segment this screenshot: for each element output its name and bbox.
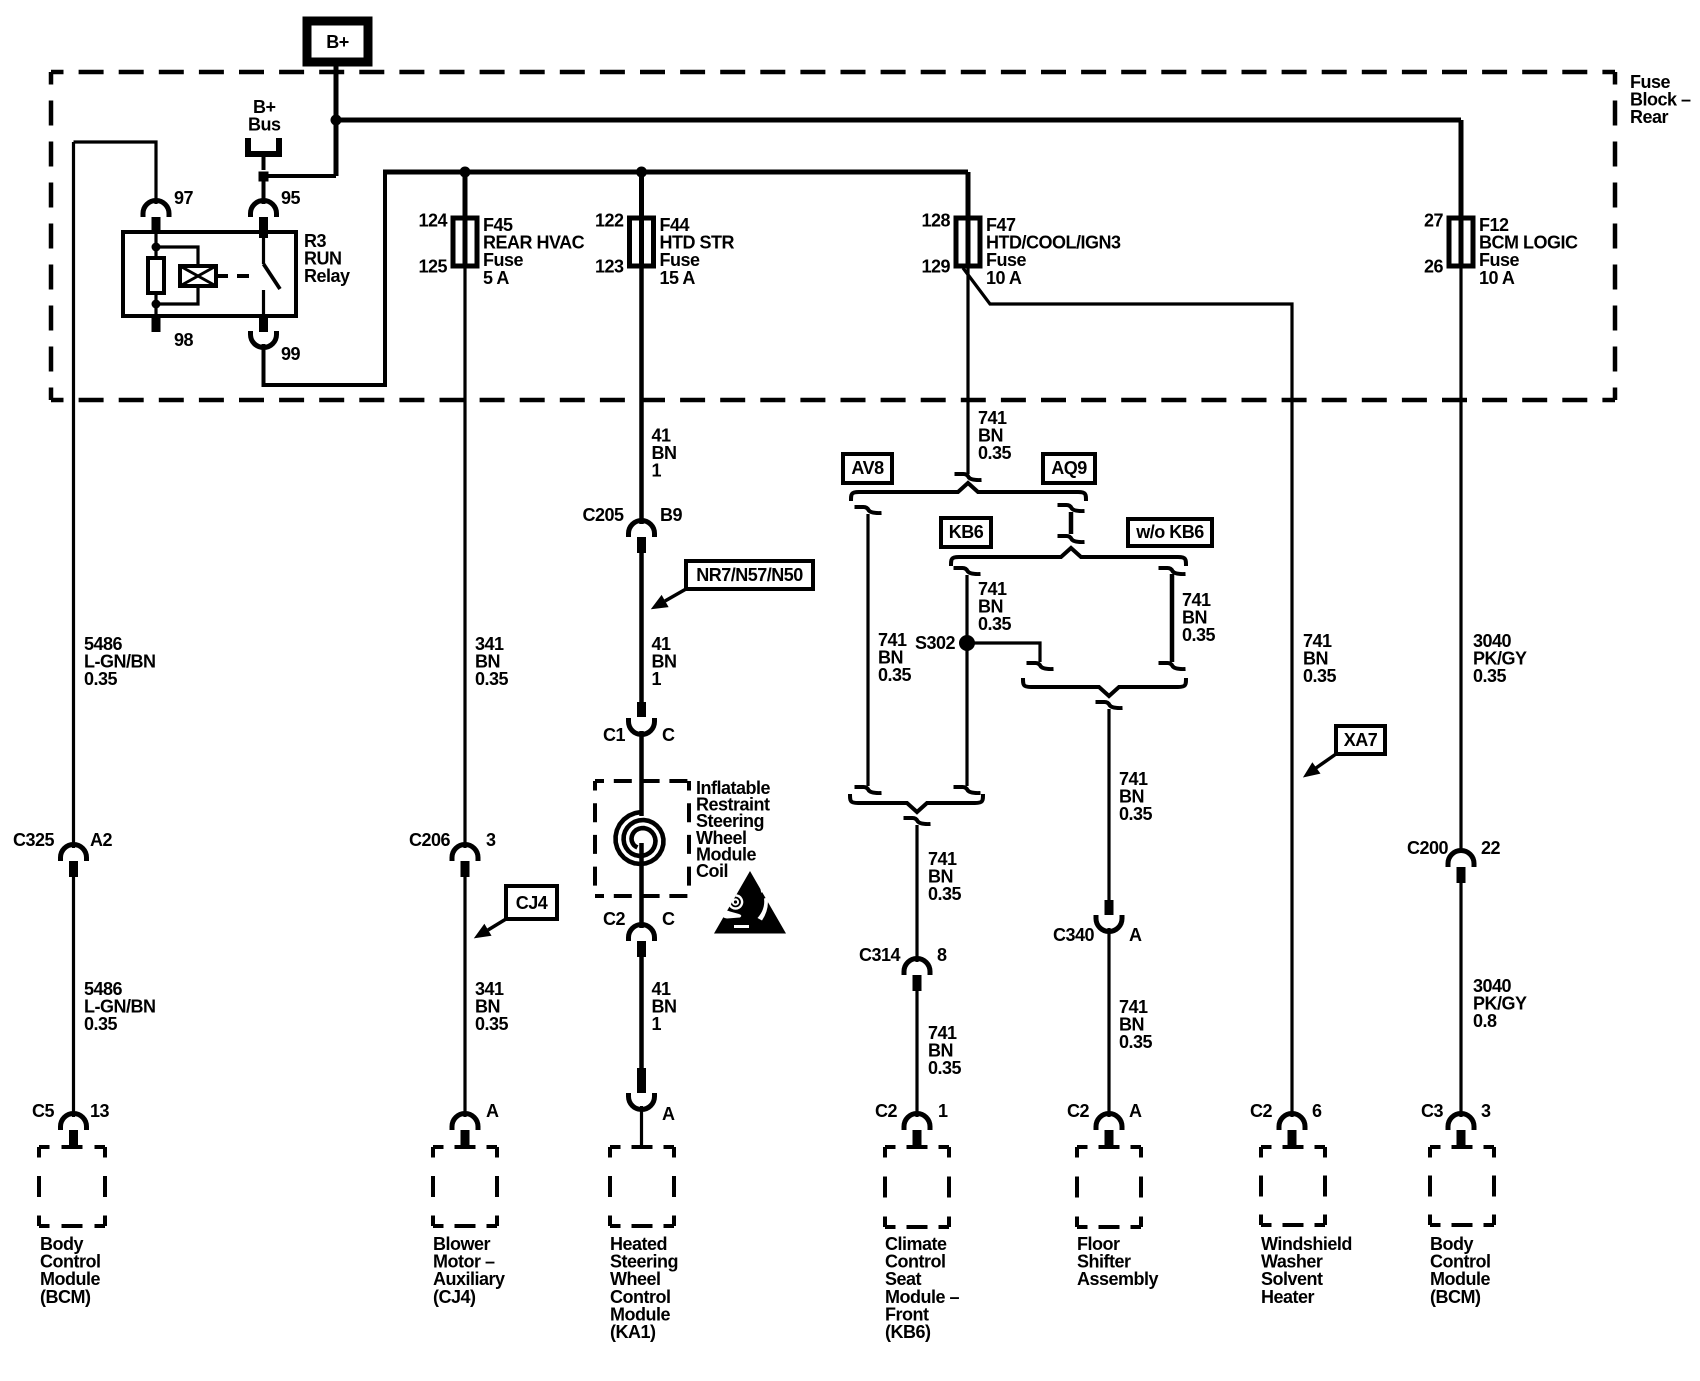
climate control seat module box <box>885 1147 959 1342</box>
connector C314 pin 8 <box>859 945 947 991</box>
wire 741 BN to C314 <box>915 825 918 962</box>
svg-text:125: 125 <box>418 257 447 277</box>
body control module (BCM) right box <box>1430 1147 1494 1307</box>
svg-text:0.35: 0.35 <box>878 665 912 685</box>
svg-text:(KB6): (KB6) <box>885 1322 931 1342</box>
wire through coil down <box>639 843 644 928</box>
relay switch contact from pin 95 <box>262 238 265 264</box>
wire 741 BN shifter lower <box>1107 928 1110 1117</box>
connector half (S302 branch end) <box>1027 663 1054 669</box>
wire 341 BN lower <box>463 877 466 1117</box>
label 341 BN 0.35 (lower) <box>475 979 509 1034</box>
wire bus B horizontal <box>383 170 968 175</box>
svg-text:0.35: 0.35 <box>1473 666 1507 686</box>
brace merge to floor shifter <box>1023 678 1186 696</box>
connector half (shifter feed start) <box>1096 702 1123 708</box>
splice S302 <box>959 635 975 651</box>
svg-text:1: 1 <box>652 1014 662 1034</box>
svg-text:B9: B9 <box>660 505 682 525</box>
windshield washer solvent heater box <box>1261 1147 1352 1307</box>
svg-text:0.35: 0.35 <box>1119 1032 1153 1052</box>
label 741 BN 0.35 (shifter upper) <box>1119 769 1153 824</box>
svg-text:B+: B+ <box>326 32 349 52</box>
fuse F45 REAR HVAC 5A <box>418 172 584 288</box>
connector C2 pin 1 (climate) <box>875 1101 948 1147</box>
svg-text:w/o KB6: w/o KB6 <box>1135 522 1204 542</box>
wire 741 BN from F47 <box>966 266 969 474</box>
wire into coil module <box>639 731 644 816</box>
relay R3 pin 95 connector <box>251 201 277 218</box>
wire AV8 branch <box>866 514 869 786</box>
svg-text:C2: C2 <box>1067 1101 1089 1121</box>
relay actuator dashed link <box>216 274 256 278</box>
svg-text:A2: A2 <box>90 830 112 850</box>
svg-text:AV8: AV8 <box>851 458 884 478</box>
label 5486 L-GN/BN 0.35 (upper) <box>84 634 156 689</box>
svg-text:0.35: 0.35 <box>1303 666 1337 686</box>
svg-text:22: 22 <box>1481 838 1501 858</box>
node bus B at F44 <box>636 167 647 178</box>
svg-text:AQ9: AQ9 <box>1051 458 1087 478</box>
label 741 BN 0.35 (shifter lower) <box>1119 997 1153 1052</box>
svg-text:1: 1 <box>652 669 662 689</box>
svg-text:KB6: KB6 <box>949 522 984 542</box>
body control module (BCM) left box <box>39 1147 105 1307</box>
relay coil solenoid branch <box>156 247 198 304</box>
svg-text:CJ4: CJ4 <box>516 893 548 913</box>
connector pin A (blower) <box>452 1101 499 1147</box>
svg-text:0.35: 0.35 <box>1119 804 1153 824</box>
wire 41 BN lower <box>639 957 644 1068</box>
svg-text:27: 27 <box>1424 211 1444 231</box>
connector C2 pin A (shifter) <box>1067 1101 1142 1147</box>
svg-text:(BCM): (BCM) <box>40 1287 91 1307</box>
svg-text:0.35: 0.35 <box>475 669 509 689</box>
connector pin A (KA1) <box>629 1068 676 1124</box>
svg-text:0.35: 0.35 <box>1182 625 1216 645</box>
svg-text:A: A <box>662 1104 675 1124</box>
svg-text:98: 98 <box>174 330 194 350</box>
svg-text:0.35: 0.35 <box>928 884 962 904</box>
svg-text:15 A: 15 A <box>660 268 696 288</box>
fuse F12 BCM LOGIC 10A <box>1424 120 1578 288</box>
connector C5 pin 13 <box>32 1101 110 1147</box>
node bus B at F45 <box>460 167 471 178</box>
connector pair AQ9 passthrough <box>1058 505 1085 511</box>
label 41 BN 1 (upper) <box>652 426 677 481</box>
label 741 BN 0.35 (w/o KB6 branch) <box>1182 590 1216 645</box>
connector half (AV8 branch end) <box>855 787 882 793</box>
NR7/N57/N50 callout box with arrow <box>653 561 813 608</box>
connector C2 pin 6 (washer) <box>1250 1101 1322 1147</box>
clockspring spiral coil <box>616 812 664 864</box>
node at B+ bus A junction <box>331 115 342 126</box>
svg-text:C2: C2 <box>603 909 625 929</box>
wire 41 BN middle <box>639 553 644 702</box>
connector C1 pin C <box>603 702 675 745</box>
svg-text:A: A <box>486 1101 499 1121</box>
svg-text:26: 26 <box>1424 257 1444 277</box>
svg-text:C314: C314 <box>859 945 901 965</box>
svg-text:0.35: 0.35 <box>475 1014 509 1034</box>
brace split AV8/AQ9 <box>851 483 1086 501</box>
svg-text:C5: C5 <box>32 1101 54 1121</box>
connector half (F47 wire end) <box>955 474 982 480</box>
svg-text:Heater: Heater <box>1261 1287 1315 1307</box>
connector half (KB6 branch end) <box>954 787 981 793</box>
wire bus A horizontal <box>336 118 1461 123</box>
svg-text:5 A: 5 A <box>483 268 509 288</box>
label 41 BN 1 (lower) <box>652 979 677 1034</box>
svg-text:XA7: XA7 <box>1344 730 1378 750</box>
svg-text:124: 124 <box>418 211 447 231</box>
svg-text:Rear: Rear <box>1630 107 1669 127</box>
connector C2 pin C (coil out) <box>603 909 675 957</box>
connector C3 pin 3 (right BCM) <box>1421 1101 1491 1147</box>
relay switch lower contact to pin 99 <box>262 290 265 316</box>
svg-text:3: 3 <box>1481 1101 1491 1121</box>
wire to relay pin 97 <box>74 142 157 204</box>
svg-text:8: 8 <box>937 945 947 965</box>
svg-text:10 A: 10 A <box>1479 268 1515 288</box>
svg-text:(KA1): (KA1) <box>610 1322 656 1342</box>
svg-text:(CJ4): (CJ4) <box>433 1287 476 1307</box>
node B+ bus tap <box>259 172 269 182</box>
label 3040 PK/GY 0.35 <box>1473 631 1527 686</box>
connector C340 pin A (shifter) <box>1053 900 1142 945</box>
wire 3040 PK/GY lower <box>1459 883 1462 1117</box>
svg-text:99: 99 <box>281 344 301 364</box>
svg-text:C340: C340 <box>1053 925 1095 945</box>
connector C205 pin B9 <box>582 505 682 553</box>
option box w/o KB6 <box>1128 519 1212 546</box>
svg-text:0.35: 0.35 <box>978 614 1012 634</box>
label 3040 PK/GY 0.8 <box>1473 976 1527 1031</box>
svg-text:(BCM): (BCM) <box>1430 1287 1481 1307</box>
wire B+ bus jumper <box>264 174 337 178</box>
B+ power symbol <box>307 21 368 62</box>
brace split KB6 / w/o KB6 <box>951 548 1186 566</box>
relay R3 pin 97 connector <box>143 201 169 218</box>
relay solenoid box with X <box>180 266 216 286</box>
wire 741 BN climate lower <box>915 991 918 1117</box>
relay coil resistor branch <box>154 233 157 316</box>
label 741 BN 0.35 (climate upper) <box>928 849 962 904</box>
svg-text:C: C <box>662 909 675 929</box>
wire w/o KB6 branch <box>1170 574 1175 662</box>
svg-text:Coil: Coil <box>696 861 728 881</box>
svg-text:0.35: 0.35 <box>84 669 118 689</box>
XA7 callout box with arrow <box>1305 726 1385 776</box>
wire B+ to bus <box>334 62 339 176</box>
svg-text:13: 13 <box>90 1101 110 1121</box>
svg-text:129: 129 <box>921 257 950 277</box>
svg-text:6: 6 <box>1312 1101 1322 1121</box>
connector C325 pin A2 <box>13 830 113 877</box>
wire 741 BN to C340 <box>1107 709 1110 900</box>
wire bus to relay pin 95 <box>262 177 266 204</box>
wire pin 99 to fuse bus B <box>264 172 386 385</box>
connector half (w/o KB6 branch end) <box>1159 663 1186 669</box>
blower motor auxiliary box <box>433 1147 505 1307</box>
label 741 BN 0.35 (climate lower) <box>928 1023 962 1078</box>
svg-text:1: 1 <box>652 461 662 481</box>
floor shifter assembly box <box>1077 1147 1159 1289</box>
svg-text:0.35: 0.35 <box>928 1058 962 1078</box>
fuse block - rear dashed border <box>51 72 1691 400</box>
connector half (KB6 branch start) <box>954 568 981 574</box>
connector half (AV8 branch start) <box>855 507 882 513</box>
svg-text:S302: S302 <box>915 633 956 653</box>
svg-text:C200: C200 <box>1407 838 1449 858</box>
wire 41 BN column (heated steering) <box>639 266 644 524</box>
svg-text:NR7/N57/N50: NR7/N57/N50 <box>696 565 803 585</box>
svg-text:0.8: 0.8 <box>1473 1011 1497 1031</box>
option box KB6 <box>941 518 991 547</box>
label 41 BN 1 (mid) <box>652 634 677 689</box>
svg-text:Relay: Relay <box>304 266 350 286</box>
svg-text:C325: C325 <box>13 830 55 850</box>
heated steering wheel control module box <box>610 1147 678 1342</box>
svg-text:C2: C2 <box>1250 1101 1272 1121</box>
connector C206 pin 3 <box>409 830 496 877</box>
svg-text:C: C <box>662 725 675 745</box>
label 741 BN 0.35 (KB6 branch) <box>978 579 1012 634</box>
option box AQ9 <box>1043 454 1095 483</box>
svg-text:0.35: 0.35 <box>84 1014 118 1034</box>
B+ Bus symbol <box>248 97 281 170</box>
svg-text:95: 95 <box>281 188 301 208</box>
wire 5486 L-GN/BN lower <box>72 877 75 1117</box>
wire 5486 L-GN/BN column (left BCM) <box>72 142 75 848</box>
fuse F47 HTD/COOL/IGN3 10A <box>921 172 1121 288</box>
svg-text:C2: C2 <box>875 1101 897 1121</box>
wire S302 branch to right <box>967 643 1040 662</box>
option box AV8 <box>843 454 892 483</box>
brace merge to climate seat module <box>850 794 983 812</box>
svg-text:1: 1 <box>938 1101 948 1121</box>
wire into KA1 <box>640 1106 643 1147</box>
label 741 BN 0.35 (AV8 branch) <box>878 630 912 685</box>
svg-text:Bus: Bus <box>248 115 281 135</box>
svg-text:123: 123 <box>595 257 624 277</box>
relay pin 99 connector <box>259 316 268 332</box>
svg-text:3: 3 <box>486 830 496 850</box>
relay switch blade <box>264 264 281 289</box>
inflatable restraint coil dashed box <box>595 778 771 896</box>
label 5486 L-GN/BN 0.35 (lower) <box>84 979 156 1034</box>
svg-text:122: 122 <box>595 211 624 231</box>
svg-text:C3: C3 <box>1421 1101 1443 1121</box>
svg-text:C205: C205 <box>582 505 624 525</box>
wire KB6 branch <box>965 575 968 786</box>
svg-text:10 A: 10 A <box>986 268 1022 288</box>
wire 341 BN column (blower) <box>463 266 466 848</box>
fuse F44 HTD STR 15A <box>595 172 735 288</box>
svg-text:C1: C1 <box>603 725 625 745</box>
connector half (w/o KB6 branch start) <box>1159 568 1186 574</box>
label 341 BN 0.35 (upper) <box>475 634 509 689</box>
svg-text:0.35: 0.35 <box>978 443 1012 463</box>
label 741 BN 0.35 (washer) <box>1303 631 1337 686</box>
wire 3040 PK/GY column (right BCM) <box>1459 266 1462 850</box>
relay pin 98 stub <box>152 316 161 332</box>
svg-text:97: 97 <box>174 188 194 208</box>
connector C200 pin 22 <box>1407 838 1501 883</box>
svg-text:128: 128 <box>921 211 950 231</box>
CJ4 callout box with arrow <box>476 886 557 937</box>
label 741 BN 0.35 (below F47) <box>978 408 1012 463</box>
connector half (climate feed start) <box>904 818 931 824</box>
airbag warning triangle <box>714 871 786 934</box>
svg-text:Assembly: Assembly <box>1077 1269 1159 1289</box>
relay R3 RUN Relay box <box>123 231 350 316</box>
wire F47 second tap to washer heater <box>963 268 1292 1117</box>
svg-text:C206: C206 <box>409 830 451 850</box>
svg-text:A: A <box>1129 925 1142 945</box>
svg-text:A: A <box>1129 1101 1142 1121</box>
